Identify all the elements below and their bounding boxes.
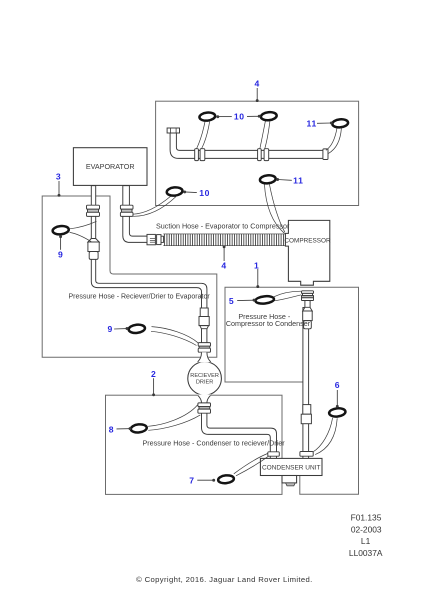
svg-text:COMPRESSOR: COMPRESSOR (284, 237, 331, 244)
svg-text:EVAPORATOR: EVAPORATOR (86, 162, 135, 171)
svg-text:CONDENSER UNIT: CONDENSER UNIT (262, 465, 321, 472)
svg-text:6: 6 (335, 380, 340, 390)
svg-text:L1: L1 (361, 536, 371, 546)
svg-text:2: 2 (151, 369, 156, 379)
svg-text:LL0037A: LL0037A (349, 548, 383, 558)
svg-text:Compressor to Condenser: Compressor to Condenser (226, 319, 311, 328)
svg-text:Suction Hose - Evaporator to C: Suction Hose - Evaporator to Compressor (156, 222, 290, 231)
svg-text:5: 5 (229, 296, 234, 306)
svg-text:10: 10 (199, 188, 210, 198)
svg-text:Pressure Hose - Condenser to r: Pressure Hose - Condenser to reciever/Dr… (142, 439, 285, 448)
svg-text:02-2003: 02-2003 (351, 525, 382, 535)
svg-text:8: 8 (109, 424, 114, 434)
svg-text:10: 10 (234, 112, 245, 122)
svg-text:1: 1 (254, 260, 259, 270)
svg-text:7: 7 (189, 475, 194, 485)
svg-text:Pressure Hose - Reciever/Drier: Pressure Hose - Reciever/Drier to Evapor… (68, 294, 210, 301)
svg-text:9: 9 (58, 250, 63, 260)
svg-text:DRIER: DRIER (196, 379, 213, 385)
svg-text:© Copyright, 2016. Jaguar Land: © Copyright, 2016. Jaguar Land Rover Lim… (136, 575, 313, 584)
svg-text:11: 11 (307, 119, 317, 129)
svg-text:3: 3 (56, 171, 61, 181)
svg-text:9: 9 (108, 324, 113, 334)
svg-text:F01.135: F01.135 (351, 513, 382, 523)
svg-text:4: 4 (254, 78, 259, 88)
svg-text:RECIEVER: RECIEVER (190, 373, 219, 379)
svg-text:11: 11 (293, 176, 303, 186)
svg-text:4: 4 (221, 260, 226, 270)
